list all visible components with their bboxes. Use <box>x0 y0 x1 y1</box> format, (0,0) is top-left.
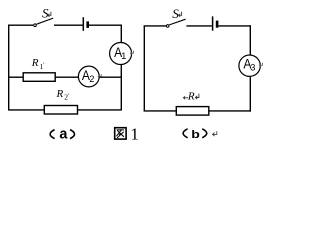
wire: (a) right vertical middle (A1 to middle rail junction) <box>120 65 122 78</box>
caption (b) <box>183 129 207 141</box>
wire: (a) top rail switch to battery <box>54 24 83 26</box>
svg-text:2: 2 <box>89 74 94 84</box>
switch S (a) <box>34 18 54 26</box>
svg-text:3: 3 <box>250 63 255 73</box>
wire: (b) left vertical <box>143 26 145 111</box>
wire: (a) right vertical upper (corner to A1) <box>120 25 122 43</box>
wire: (b) bottom rail right segment <box>209 110 251 112</box>
formatting mark after S (b) <box>178 12 181 17</box>
wire: (a) middle rail A2 to right vertical <box>99 76 121 78</box>
wire: (a) right vertical lower (middle rail to bottom rail) <box>120 77 122 110</box>
svg-text:a: a <box>59 126 68 142</box>
caption 图1 (figure 1) <box>115 125 139 144</box>
wire: (a) top rail battery to top-right corner <box>89 24 121 26</box>
wire: (b) top rail left segment to switch <box>144 25 166 27</box>
ammeter A3 <box>239 55 260 76</box>
svg-text:S: S <box>42 6 49 21</box>
resistor R2 body <box>44 106 77 115</box>
caption (a) <box>50 126 74 142</box>
resistor R body <box>176 107 209 116</box>
wire: (a) bottom rail left segment <box>8 109 44 111</box>
svg-text:b: b <box>191 129 200 141</box>
wire: (a) top rail left segment to switch <box>8 24 33 26</box>
formatting mark after S (a) <box>48 12 51 17</box>
ammeter A2 <box>78 66 99 87</box>
formatting mark after A1 <box>130 51 133 55</box>
wire: (a) middle rail R1 to A2 <box>55 76 78 78</box>
label S (a) <box>42 6 49 21</box>
label R2 <box>56 88 70 102</box>
formatting mark after caption (b) <box>213 131 217 136</box>
formatting mark after A2 <box>98 74 101 78</box>
resistor R1 body <box>23 73 55 82</box>
wire: (a) middle rail left segment <box>9 76 24 78</box>
wire: (b) top rail switch to battery <box>186 25 212 27</box>
svg-text:1: 1 <box>40 62 44 71</box>
battery (b) positive plate <box>212 16 214 30</box>
wire: (b) right vertical upper (corner to A3) <box>249 25 251 54</box>
formatting mark after A3 <box>259 63 262 67</box>
ammeter A1 <box>110 43 132 65</box>
svg-text:S: S <box>172 6 179 21</box>
svg-text:R: R <box>187 91 195 103</box>
svg-text:2: 2 <box>64 93 68 102</box>
wire: (a) bottom rail right segment <box>78 109 122 111</box>
wire: (b) top rail battery to top-right corner <box>218 25 250 27</box>
battery (b) negative plate <box>216 21 219 28</box>
label R1 <box>31 57 44 71</box>
battery (a) positive plate <box>82 17 84 31</box>
battery (a) negative plate <box>86 21 89 28</box>
switch S (b) <box>166 19 185 27</box>
wire: (b) bottom rail left segment <box>144 110 177 112</box>
svg-text:R: R <box>31 57 39 69</box>
svg-text:1: 1 <box>130 125 139 144</box>
label R (b) with formatting marks <box>183 91 199 103</box>
wire: (a) left vertical <box>8 25 10 110</box>
svg-text:1: 1 <box>121 51 126 61</box>
svg-text:R: R <box>56 88 64 100</box>
wire: (b) right vertical lower (A3 to bottom rail) <box>249 77 251 112</box>
label S (b) <box>172 6 179 21</box>
